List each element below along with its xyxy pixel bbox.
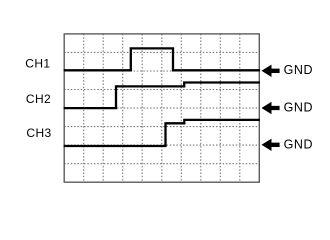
grid horizontal dotted lines (64, 52, 259, 163)
CH3 waveform trace (64, 120, 260, 146)
GND arrow 3 (CH3 ground reference) (262, 139, 280, 151)
screen border (64, 34, 259, 182)
svg-text:CH3: CH3 (26, 126, 51, 140)
CH1 waveform trace (64, 48, 260, 70)
svg-text:GND: GND (284, 137, 314, 151)
GND arrow 2 (CH2 ground reference) (262, 102, 280, 114)
svg-text:CH1: CH1 (25, 57, 50, 71)
svg-text:CH2: CH2 (26, 92, 51, 106)
svg-text:GND: GND (284, 63, 314, 77)
grid vertical dotted lines (84, 34, 240, 182)
GND arrow 1 (CH1 ground reference) (262, 65, 280, 77)
svg-text:GND: GND (284, 101, 314, 115)
CH2 waveform trace (64, 83, 260, 109)
